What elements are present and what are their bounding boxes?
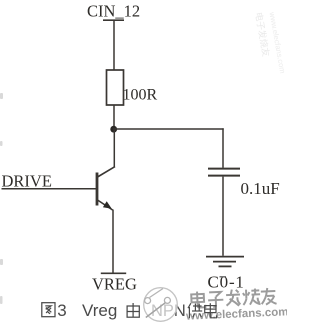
svg-text:CIN_12: CIN_12 (87, 2, 140, 21)
wire resistor bottom to node A (113, 105, 115, 129)
resistor R1 body (107, 70, 124, 105)
watermark logo circle over caption (144, 288, 178, 322)
capacitor C bottom plate (208, 175, 240, 177)
node A junction dot (110, 126, 117, 133)
net tick bar above VREG (101, 272, 126, 274)
svg-text:www.elecfans.com: www.elecfans.com (267, 10, 287, 74)
transistor Q1 NPN (97, 167, 115, 210)
caption figure text: 图 3 Vreg 由 NPN 供电 (42, 301, 217, 320)
svg-text:Vreg: Vreg (82, 301, 117, 320)
caption CJK char 供 (188, 303, 202, 318)
wire node A to capacitor (horizontal) (113, 128, 224, 130)
wire corner down to capacitor top (222, 128, 224, 168)
watermark text 电子发烧友 (bottom right) (191, 288, 277, 308)
svg-text:3: 3 (57, 301, 66, 320)
scan specks left edge (0, 93, 3, 304)
capacitor value label 0.1uF (241, 179, 280, 198)
watermark faint top right (253, 10, 287, 74)
net label CIN_12 (87, 2, 140, 21)
net label VREG (92, 275, 137, 294)
watermark char 烧 (243, 288, 261, 305)
wire capacitor bottom to ground (222, 177, 224, 256)
svg-text:0.1uF: 0.1uF (241, 179, 280, 198)
net tick bar under CIN_12 (103, 19, 124, 21)
caption CJK char 图 (42, 303, 55, 317)
svg-text:C0-1: C0-1 (208, 273, 245, 292)
capacitor C top plate (208, 168, 240, 170)
wire CIN_12 to resistor top (113, 20, 115, 70)
watermark char 子 (208, 292, 224, 307)
wire emitter down to VREG (112, 210, 114, 274)
watermark char 友 (261, 288, 277, 305)
resistor value label 100R (123, 87, 158, 104)
watermark text www.elecfans.com (bottom right) (185, 306, 289, 323)
wire DRIVE to transistor base (2, 188, 97, 190)
net label DRIVE (2, 172, 52, 191)
svg-text:VREG: VREG (92, 275, 137, 294)
watermark char 电 (191, 291, 205, 308)
caption CJK char 电 (205, 303, 217, 318)
svg-text:100R: 100R (123, 87, 158, 104)
ground symbol (206, 257, 244, 267)
wire collector to node A (113, 130, 115, 167)
capacitor reference label C0-1 (208, 273, 245, 292)
watermark char 发 (226, 289, 241, 306)
caption CJK char 由 (127, 303, 139, 317)
svg-text:DRIVE: DRIVE (2, 172, 52, 191)
